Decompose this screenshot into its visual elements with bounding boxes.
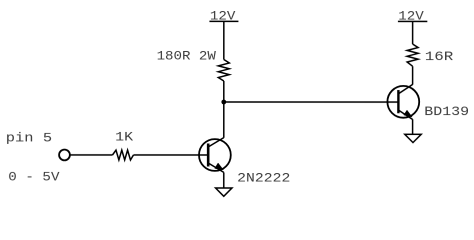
svg-text:12V: 12V bbox=[398, 9, 424, 24]
wire Q1 collector up to node A bbox=[223, 81, 225, 138]
svg-text:180R 2W: 180R 2W bbox=[157, 48, 216, 63]
svg-text:2N2222: 2N2222 bbox=[237, 171, 290, 186]
wire R3 to Q2 collector bbox=[412, 66, 414, 84]
ground (Q1 emitter) bbox=[216, 188, 232, 196]
svg-text:16R: 16R bbox=[425, 49, 454, 64]
wire node A to Q2 base bbox=[224, 101, 399, 103]
junction node A bbox=[221, 100, 226, 105]
transistor Q1 2N2222 bbox=[199, 138, 231, 173]
svg-text:pin 5: pin 5 bbox=[6, 130, 52, 145]
resistor R2 180R 2W bbox=[218, 59, 229, 81]
wire R1 to Q1 base bbox=[133, 154, 208, 156]
supply bar 12V (left) bbox=[209, 20, 238, 22]
svg-text:BD139: BD139 bbox=[424, 104, 469, 119]
svg-text:0 - 5V: 0 - 5V bbox=[8, 170, 59, 185]
svg-text:1K: 1K bbox=[115, 130, 133, 145]
ground (Q2 emitter) bbox=[405, 134, 421, 142]
wire Q2 emitter to ground bbox=[412, 119, 414, 134]
wire terminal to R1 bbox=[70, 154, 113, 156]
transistor Q2 BD139 bbox=[387, 84, 419, 119]
resistor R3 16R bbox=[407, 44, 418, 66]
svg-text:12V: 12V bbox=[210, 9, 236, 24]
supply bar 12V (right) bbox=[398, 20, 427, 22]
wire 12V rail to R2 bbox=[223, 21, 225, 59]
wire Q1 emitter to ground bbox=[223, 172, 225, 188]
resistor R1 1K bbox=[112, 150, 133, 160]
wire 12V rail to R3 bbox=[412, 21, 414, 44]
terminal pin 5 (input) bbox=[59, 150, 70, 161]
